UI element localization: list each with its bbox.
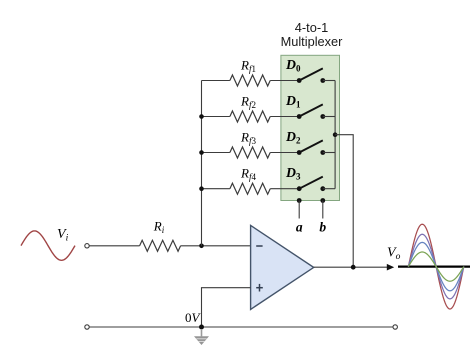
output arrow head (387, 264, 394, 271)
junction on bus row 2 (199, 114, 204, 119)
svg-text:b: b (319, 220, 326, 235)
wire contact D1 to common (323, 116, 335, 118)
wire bus to Rf3 (202, 152, 230, 154)
feedback bus wire (201, 81, 203, 246)
wire Ri to op-amp inverting input (181, 245, 251, 247)
wire 0V node to non-inverting input (202, 288, 251, 327)
mux common output line (334, 81, 336, 189)
output sine green (408, 252, 463, 281)
svg-text:0V: 0V (185, 310, 202, 325)
output sine purple (408, 234, 463, 299)
switch D1 pole (297, 114, 302, 119)
wire contact D3 to common (323, 188, 335, 190)
0V left terminal (85, 325, 89, 329)
switch D0 arm (299, 68, 323, 80)
op-amp output wire (314, 266, 388, 268)
resistor Rf1 (230, 75, 270, 86)
svg-text:a: a (296, 220, 303, 235)
switch D2 arm (299, 140, 323, 152)
op-amp minus sign (256, 245, 262, 247)
0V rail wire (89, 326, 393, 328)
wire bus to Rf2 (202, 116, 230, 118)
wire bus to Rf1 (202, 80, 230, 82)
switch D3 pole (297, 186, 302, 191)
wire Rf2 to switch D1 (270, 116, 299, 118)
output waveform axis (398, 266, 470, 268)
junction mux common (333, 132, 338, 137)
wire Rf3 to switch D2 (270, 152, 299, 154)
wire contact D2 to common (323, 152, 335, 154)
svg-text:Multiplexer: Multiplexer (281, 34, 344, 49)
junction on bus row 3 (199, 150, 204, 155)
input terminal (85, 244, 89, 248)
select line a stub (298, 201, 300, 219)
input sine wave Vi signal (21, 231, 75, 260)
op-amp U1 (251, 225, 314, 309)
switch D1 arm (299, 104, 323, 116)
junction on bus row 4 (199, 186, 204, 191)
switch D2 pole (297, 150, 302, 155)
wire contact D0 to common (323, 80, 335, 82)
switch D0 pole (297, 78, 302, 83)
junction node at inverting input (199, 244, 204, 249)
wire input terminal to Ri (89, 245, 139, 247)
switch D0 contact (320, 78, 325, 83)
switch D3 contact (320, 186, 325, 191)
wire bus to Rf4 (202, 188, 230, 190)
switch D2 contact (320, 150, 325, 155)
resistor Rf3 (230, 147, 270, 158)
select line b stub (322, 201, 324, 219)
ground symbol (194, 329, 209, 345)
resistor Rf2 (230, 111, 270, 122)
resistor Rf4 (230, 183, 270, 194)
output junction node (351, 265, 356, 270)
select line a node (297, 198, 302, 203)
wire Rf4 to switch D3 (270, 188, 299, 190)
0V right terminal (393, 325, 397, 329)
output sine red (408, 224, 463, 309)
wire mux common to output node (335, 135, 353, 268)
output sine blue (408, 242, 463, 290)
resistor Ri (140, 240, 181, 251)
0V junction (199, 325, 204, 330)
select line b node (320, 198, 325, 203)
switch D1 contact (320, 114, 325, 119)
op-amp plus sign (256, 287, 263, 289)
switch D3 arm (299, 177, 323, 189)
4-to-1 multiplexer box (281, 55, 340, 200)
wire Rf1 to switch D0 (270, 80, 299, 82)
